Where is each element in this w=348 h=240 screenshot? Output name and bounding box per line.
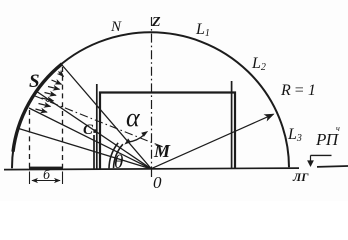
mast line left bbox=[96, 84, 98, 169]
horizon line (right segment) bbox=[317, 165, 348, 168]
picture plane arrow down bbox=[307, 155, 314, 167]
S fan arrow 3 bbox=[48, 87, 60, 90]
theta outer arc bbox=[109, 143, 118, 169]
dimension line with arrows bbox=[32, 180, 60, 182]
alpha curved arrow bbox=[124, 131, 148, 145]
label RP (picture plane) bbox=[316, 130, 338, 150]
S fan arrow 1 bbox=[59, 72, 64, 77]
label L3 bbox=[288, 126, 302, 144]
label L2 bbox=[252, 55, 266, 73]
S fan arrow 5 bbox=[42, 98, 54, 101]
semicircle arc R=1 bbox=[12, 32, 289, 168]
point C square dot bbox=[93, 129, 97, 133]
S fan arrow 2 bbox=[52, 80, 62, 84]
label theta bbox=[114, 152, 123, 174]
Z axis stub below horizon at O bbox=[151, 169, 153, 177]
thick bar on horizon (b projection) bbox=[29, 167, 63, 170]
label Z bbox=[152, 15, 161, 31]
dimension tick right bbox=[62, 172, 64, 185]
label S bbox=[29, 71, 40, 93]
bold arc segment at S fan bbox=[13, 64, 62, 152]
label N bbox=[111, 19, 121, 36]
ray through C to O bbox=[36, 91, 152, 169]
label b dimension bbox=[43, 168, 50, 184]
label LG (horizon line) bbox=[293, 170, 308, 185]
right wall double line bbox=[231, 81, 233, 169]
label RP superscript mark bbox=[336, 124, 340, 133]
ray D low to O bbox=[17, 128, 152, 169]
label O bbox=[153, 173, 162, 193]
mast double lower left bbox=[93, 135, 95, 169]
ray B (lower fan boundary to O) bbox=[29, 108, 152, 169]
S fan arrow 6 bbox=[39, 104, 51, 107]
S fan arrow 7 bbox=[36, 109, 48, 112]
building rectangle bbox=[100, 93, 235, 170]
dashed vertical from ray B arc point bbox=[29, 110, 31, 168]
ray A (upper fan boundary to O) bbox=[62, 65, 152, 169]
picture plane marker top bar bbox=[311, 154, 332, 156]
dash-dot fan axis line bbox=[35, 96, 163, 147]
label C bbox=[83, 122, 93, 139]
radius arrow R=1 bbox=[152, 114, 274, 168]
Z axis dash-dot vertical bbox=[151, 17, 153, 169]
horizon line (left segment) bbox=[4, 168, 299, 170]
label M bbox=[154, 141, 170, 162]
dimension tick left bbox=[29, 172, 31, 185]
label L1 bbox=[196, 21, 210, 39]
label alpha bbox=[126, 103, 140, 133]
S fan arrow 4 bbox=[45, 93, 57, 96]
theta inner arc bbox=[114, 144, 123, 168]
dashed vertical from ray A arc point bbox=[62, 67, 64, 168]
label R=1 bbox=[281, 82, 316, 100]
